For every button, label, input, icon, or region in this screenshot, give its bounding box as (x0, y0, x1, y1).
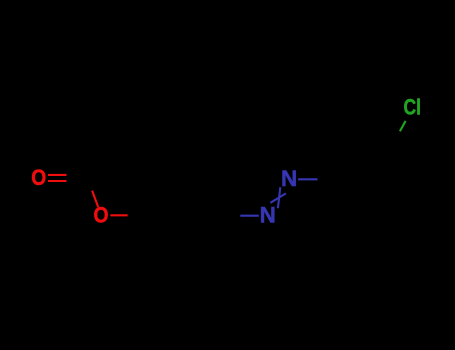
bond C4-N1 nitrogen half (240, 215, 258, 217)
bond O2-C1 carbon half (128, 214, 145, 216)
ring 1 aromatic inner double bond top edge (170, 187, 196, 189)
svg-text:Cl: Cl (404, 95, 422, 120)
bond C7-C8 methyl (87, 143, 107, 178)
svg-text:O: O (94, 202, 109, 227)
ring 1 benzene (acetoxyphenyl) outline (145, 183, 220, 248)
bond O2-C1 oxygen half (110, 214, 127, 216)
bond C7=O1 double bond red halves (48, 175, 67, 181)
ring 2 aromatic inner double bond lower-right edge (392, 178, 405, 201)
bond N1=N2 crossed double bond line B (shallow) (270, 193, 286, 202)
ring 2 aromatic inner double bond top edge (363, 151, 389, 153)
bond N1=N2 crossed double bond line A (steep) (278, 187, 280, 208)
bond C7-O2 carbon half (87, 178, 93, 193)
svg-text:N: N (260, 203, 276, 228)
ring 1 aromatic inner double bond lower-right edge (199, 214, 212, 237)
bond C7=O1 double bond carbon halves (67, 175, 88, 181)
bond N2-C1' nitrogen half (298, 178, 317, 180)
ring 1 aromatic inner double bond lower-left edge (153, 214, 166, 237)
bond C3'-Cl chlorine half (400, 121, 406, 131)
ring 2 aromatic inner double bond lower-left edge (346, 178, 359, 201)
svg-text:N: N (281, 166, 297, 191)
bond C4-N1 carbon half (220, 215, 240, 217)
svg-text:O: O (31, 165, 46, 190)
bond C7-O2 oxygen half (92, 191, 98, 207)
bond C3'-Cl carbon half (394, 132, 400, 147)
ring 2 benzene (chlorophenyl) outline (338, 147, 413, 212)
bond N2-C1' carbon half (318, 178, 339, 180)
